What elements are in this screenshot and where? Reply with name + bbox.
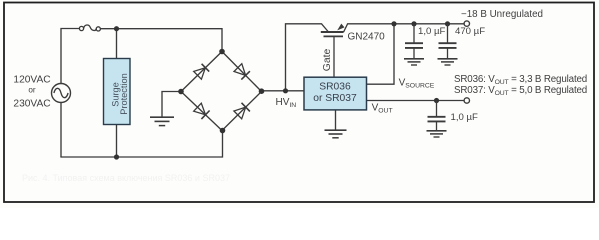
- diode D1 (bridge upper-left): [194, 64, 210, 79]
- junction dot: fuse/surge branch: [114, 26, 119, 31]
- svg-text:SR036: VOUT = 3,3 В Regulated: SR036: VOUT = 3,3 В Regulated: [454, 74, 587, 86]
- capacitor C3 1.0uF: [428, 101, 446, 131]
- ground (C3): [427, 131, 447, 137]
- ground (C2): [438, 59, 458, 65]
- wire: surge box bottom riser: [116, 125, 118, 158]
- AC source V1: [52, 84, 71, 103]
- svg-text:SR036: SR036: [319, 82, 351, 93]
- junction dot: rail / C2: [445, 21, 450, 26]
- svg-text:GN2470: GN2470: [348, 32, 386, 43]
- surge protection box: [104, 59, 131, 125]
- ground (C1): [404, 59, 424, 65]
- junction dot: bridge bottom vertex: [220, 128, 226, 134]
- capacitor C1 1.0uF: [405, 24, 423, 59]
- junction dot: bridge left vertex: [178, 89, 184, 95]
- wire: riser from HV_IN node up to transistor rail: [286, 24, 322, 91]
- terminal: regulated output: [464, 98, 469, 103]
- ground (regulator): [325, 130, 347, 138]
- fuse F1: [79, 25, 100, 31]
- svg-text:230VAC: 230VAC: [13, 98, 50, 109]
- terminal: unregulated output: [464, 21, 469, 26]
- wire: riser from top rail to surge protection box: [116, 29, 118, 59]
- wire: rail from transistor to unregulated output terminal: [348, 23, 465, 25]
- svg-text:or SR037: or SR037: [313, 93, 357, 104]
- svg-text:Protection: Protection: [119, 73, 129, 114]
- svg-text:SR037: VOUT = 5,0 В Regulated: SR037: VOUT = 5,0 В Regulated: [454, 85, 587, 97]
- svg-text:1,0 µF: 1,0 µF: [451, 112, 479, 123]
- diode D4 (bridge lower-right): [234, 103, 250, 119]
- wire: fuse to surge-box junction to bridge top riser: [100, 29, 222, 52]
- junction dot: V_OUT rail / C3: [434, 98, 439, 103]
- diode D3 (bridge lower-left): [194, 103, 210, 119]
- junction dot: rail / C1: [411, 21, 416, 26]
- svg-text:470 µF: 470 µF: [455, 26, 485, 37]
- wire: bridge diamond sides: [181, 52, 262, 131]
- junction dot: bottom rail / surge box: [114, 154, 119, 159]
- junction dot: rail / V_SOURCE riser: [391, 21, 396, 26]
- wire: V_OUT rail from regulator to output terminal: [367, 100, 465, 102]
- capacitor C2 470uF: [439, 24, 457, 59]
- wire: AC source bottom column: [60, 103, 62, 158]
- label 120VAC / or / 230VAC: [13, 74, 50, 109]
- junction dot: bridge top vertex: [219, 49, 225, 55]
- wire: bottom rail: [61, 131, 223, 158]
- svg-text:−18 В Unregulated: −18 В Unregulated: [461, 9, 543, 20]
- svg-text:Рис. 4. Типовая схема включени: Рис. 4. Типовая схема включения SR036 и …: [22, 173, 230, 183]
- junction dot: HV_IN riser node: [283, 88, 288, 93]
- svg-text:120VAC: 120VAC: [13, 74, 50, 85]
- regulator U1 SR036/SR037: [304, 77, 367, 110]
- ground (bridge left vertex): [150, 117, 174, 125]
- junction dot: bridge right vertex: [259, 88, 265, 94]
- wire: HV_IN from bridge right vertex to regulator: [262, 90, 305, 92]
- svg-text:or: or: [28, 85, 36, 94]
- wire: bridge left vertex to ground stub: [162, 92, 181, 118]
- wire: top-left rail from AC source corner to fuse: [61, 29, 79, 84]
- svg-text:Gate: Gate: [322, 49, 333, 72]
- transistor Q1 GN2470: [321, 24, 348, 78]
- svg-text:1,0 µF: 1,0 µF: [418, 26, 446, 37]
- diode D2 (bridge upper-right): [234, 64, 250, 80]
- wire: V_SOURCE riser from rail down to regulator: [367, 24, 394, 84]
- wire: regulator ground stub: [335, 110, 337, 130]
